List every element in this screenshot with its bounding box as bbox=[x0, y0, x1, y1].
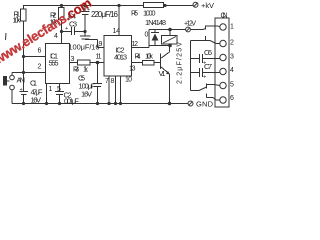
svg-text:AN: AN bbox=[17, 76, 26, 85]
svg-text:8: 8 bbox=[111, 78, 115, 85]
CN pin 3 bbox=[220, 54, 226, 60]
resistor R5 bbox=[144, 3, 164, 8]
terminal +kV bbox=[193, 2, 198, 7]
capacitor C3 bbox=[62, 31, 72, 33]
svg-text:1000: 1000 bbox=[143, 9, 156, 18]
connector CN box bbox=[215, 18, 229, 107]
svg-text:10k: 10k bbox=[13, 16, 21, 25]
svg-text:0: 0 bbox=[145, 32, 149, 39]
svg-text:1k: 1k bbox=[83, 65, 88, 74]
capacitor C2 bbox=[59, 84, 61, 92]
svg-text:CN: CN bbox=[221, 12, 228, 19]
svg-text:0.01μF: 0.01μF bbox=[64, 97, 79, 106]
capacitor C4 bbox=[84, 5, 86, 11]
svg-text:11: 11 bbox=[96, 54, 102, 61]
svg-text:555: 555 bbox=[49, 59, 59, 68]
wire pin6 bbox=[24, 56, 46, 58]
svg-text:+kV: +kV bbox=[201, 1, 214, 10]
svg-text:14: 14 bbox=[113, 28, 121, 35]
wire coil top to +12V terminal bbox=[149, 29, 186, 31]
junction dots bbox=[22, 4, 172, 105]
wire IC2 pin14 to top rail bbox=[118, 5, 120, 36]
capacitor C1 bbox=[23, 73, 25, 92]
svg-text:1: 1 bbox=[230, 24, 234, 31]
wire contact to CN pin2 bbox=[191, 40, 211, 42]
svg-text:+: + bbox=[203, 61, 206, 67]
capacitor C7 bbox=[191, 72, 200, 74]
svg-text:12: 12 bbox=[132, 41, 139, 48]
CN pin 6 bbox=[220, 97, 226, 103]
wire IC1 pin1 to ground bbox=[46, 84, 48, 104]
wire pin2 bbox=[24, 72, 46, 74]
wire IC2 pin8 to ground bbox=[115, 76, 117, 104]
wire contact to CN pin6 bbox=[207, 97, 214, 99]
CN pin 2 bbox=[220, 40, 226, 46]
resistor R4 bbox=[143, 61, 155, 66]
watermark www.elecfans.com bbox=[0, 0, 94, 68]
pushbutton AN bbox=[12, 72, 24, 74]
wire IC2 pin12 bbox=[132, 47, 150, 49]
CN pin 4 bbox=[220, 68, 226, 74]
wire IC2 pin10 to ground bbox=[120, 76, 122, 104]
capacitor 100uF/16 coupling bbox=[84, 32, 86, 36]
svg-text:1N4148: 1N4148 bbox=[145, 18, 166, 27]
resistor R1 bbox=[23, 5, 25, 9]
svg-text:9: 9 bbox=[99, 41, 103, 48]
CN pin 5 bbox=[220, 82, 226, 88]
svg-text:3: 3 bbox=[71, 56, 75, 63]
svg-text:R5: R5 bbox=[131, 9, 138, 18]
svg-text:R4: R4 bbox=[135, 52, 141, 61]
resistor R3 bbox=[78, 60, 91, 65]
svg-text:R3: R3 bbox=[73, 65, 79, 74]
stray tick mark bbox=[5, 33, 8, 40]
svg-text:5: 5 bbox=[57, 86, 61, 93]
svg-text:100μF/16: 100μF/16 bbox=[69, 43, 100, 52]
wire R2 bottom bbox=[61, 20, 63, 44]
relay coil K bbox=[162, 36, 178, 45]
wire coil bottom / collector node bbox=[149, 45, 170, 47]
svg-text:4: 4 bbox=[230, 67, 234, 74]
capacitor C6 bbox=[191, 58, 200, 60]
IC2 4013 box bbox=[104, 36, 132, 77]
svg-text:1: 1 bbox=[49, 86, 53, 93]
svg-text:3: 3 bbox=[230, 54, 234, 61]
transistor V1 bbox=[160, 54, 162, 70]
wire bottom ground rail bbox=[12, 103, 188, 105]
svg-text:V1: V1 bbox=[159, 69, 166, 78]
svg-text:13: 13 bbox=[129, 66, 136, 73]
svg-text:10k: 10k bbox=[145, 52, 153, 61]
capacitor C5 bbox=[97, 63, 99, 84]
wire button to ground rail bbox=[11, 90, 13, 104]
svg-text:4013: 4013 bbox=[114, 53, 127, 62]
svg-text:16V: 16V bbox=[81, 90, 92, 99]
svg-text:10: 10 bbox=[125, 77, 132, 84]
wire contact to CN pin5 bbox=[207, 84, 215, 86]
terminal GND bbox=[188, 101, 193, 106]
svg-text:2.2μF/25V: 2.2μF/25V bbox=[177, 42, 184, 84]
wire IC2 pin13 to R4 bbox=[132, 62, 143, 64]
wire R1 bottom to trigger node bbox=[23, 21, 25, 72]
svg-text:7: 7 bbox=[105, 78, 109, 85]
wire R3 to IC2 pin11 bbox=[90, 62, 104, 64]
diode 1N4148 bbox=[154, 30, 156, 34]
svg-text:+: + bbox=[65, 26, 68, 32]
wire +12V terminal to relay contact 1 bbox=[191, 29, 204, 31]
resistor R2 bbox=[59, 8, 65, 20]
svg-text:6: 6 bbox=[38, 48, 42, 55]
svg-text:+12V: +12V bbox=[184, 21, 196, 28]
svg-text:220μF/16: 220μF/16 bbox=[91, 10, 119, 19]
relay contact 2 wires bbox=[191, 90, 200, 92]
svg-text:16V: 16V bbox=[31, 96, 42, 105]
wire IC2 pin7 to ground bbox=[108, 76, 110, 104]
CN pin 1 bbox=[220, 24, 226, 30]
svg-text:+: + bbox=[20, 87, 23, 93]
wire coupling cap to IC2 pin9 bbox=[84, 38, 86, 41]
svg-text:2: 2 bbox=[230, 40, 234, 47]
terminal +12V bbox=[186, 27, 191, 32]
svg-text:C1: C1 bbox=[30, 79, 37, 88]
svg-text:5: 5 bbox=[230, 82, 234, 89]
svg-text:2: 2 bbox=[38, 64, 42, 71]
svg-text:+: + bbox=[203, 75, 206, 81]
wire top rail bbox=[24, 5, 144, 7]
svg-text:4: 4 bbox=[54, 33, 58, 40]
IC1 555 box bbox=[46, 44, 70, 84]
svg-text:C6: C6 bbox=[204, 48, 212, 57]
wire IC1 pin3 to R3 bbox=[70, 62, 78, 64]
wire feeder vertical bbox=[190, 41, 192, 91]
svg-text:GND: GND bbox=[196, 100, 214, 109]
wire contact to CN pin1 bbox=[206, 25, 221, 28]
svg-text:6: 6 bbox=[230, 95, 234, 102]
wire R4 to V1 base bbox=[154, 62, 161, 64]
